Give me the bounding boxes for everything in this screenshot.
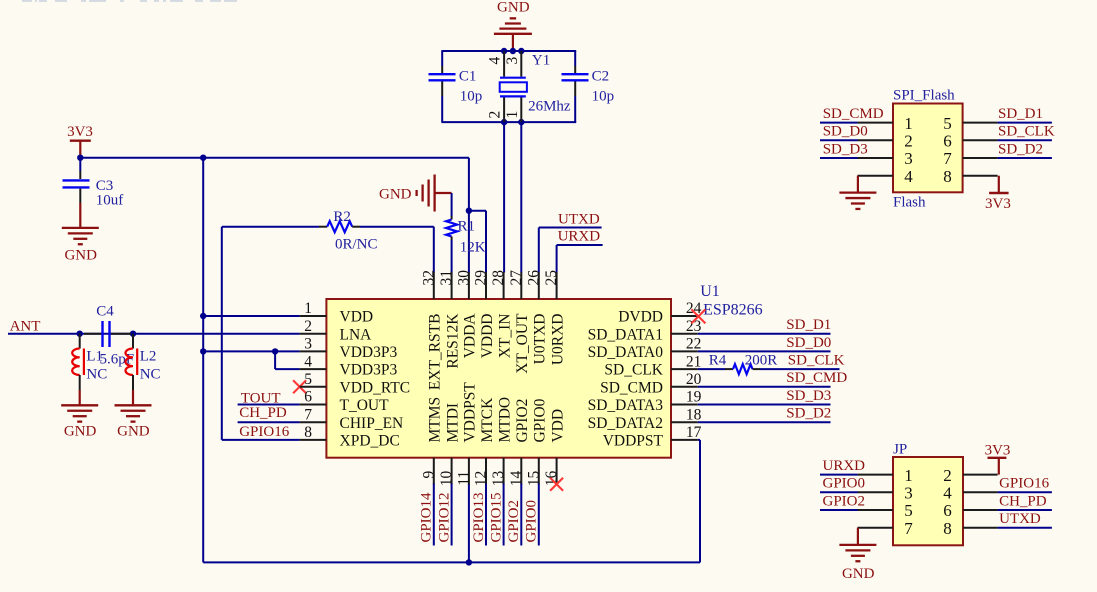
pin name MTDI (U1 pin 10) bbox=[444, 403, 461, 443]
pin 32 stub (U1 top) bbox=[433, 272, 435, 299]
svg-text:LNA: LNA bbox=[340, 326, 373, 343]
pin number 1 (SPI_Flash) bbox=[904, 114, 913, 133]
junction ANT at L2 bbox=[130, 331, 136, 337]
wire SD_D2 (SPI_Flash right) bbox=[998, 157, 1052, 159]
pin 14 stub (U1 bottom) bbox=[520, 458, 522, 485]
pin name U0RXD (U1 pin 25) bbox=[549, 314, 566, 366]
wire GPIO12 bbox=[451, 484, 453, 546]
capacitor C2 bbox=[562, 51, 615, 122]
pin name XPD_DC (U1 pin 8) bbox=[340, 433, 400, 450]
net label ANT bbox=[10, 319, 41, 335]
pin name GPIO2 (U1 pin 14) bbox=[514, 399, 531, 443]
pin 29 stub (U1 top) bbox=[485, 272, 487, 299]
net label CH_PD (JP right) bbox=[999, 493, 1047, 509]
svg-text:19: 19 bbox=[686, 389, 702, 406]
pin 24 stub (U1 right) bbox=[671, 315, 698, 317]
wire U0TXD pin26 to UTXD bbox=[539, 228, 602, 273]
junction 3V3 at C3 bbox=[77, 155, 83, 161]
svg-text:10p: 10p bbox=[460, 89, 483, 105]
ground GND (under L1) bbox=[61, 390, 98, 439]
svg-text:EXT_RSTB: EXT_RSTB bbox=[427, 313, 444, 390]
value ESP8266 bbox=[703, 301, 763, 318]
pin name SD_CLK (U1 pin 21) bbox=[604, 362, 663, 379]
pin name VDDD (U1 pin 29) bbox=[479, 314, 496, 359]
svg-text:VDD_RTC: VDD_RTC bbox=[340, 379, 411, 396]
pin name VDD (U1 pin 16) bbox=[549, 409, 566, 443]
svg-text:GPIO0: GPIO0 bbox=[823, 476, 866, 492]
pin number 16 (U1) bbox=[543, 471, 560, 487]
net label GPIO0 bbox=[524, 500, 540, 543]
pin 15 stub (U1 bottom) bbox=[538, 458, 540, 485]
svg-text:2: 2 bbox=[304, 318, 312, 335]
junction crystal top pin4 bbox=[501, 48, 507, 54]
svg-text:MTCK: MTCK bbox=[479, 397, 496, 443]
svg-text:0R/NC: 0R/NC bbox=[335, 237, 378, 253]
power symbol 3V3 (JP pin2) bbox=[985, 442, 1011, 474]
pin number 19 (U1) bbox=[686, 389, 702, 406]
pin number 6 (SPI_Flash) bbox=[943, 132, 952, 151]
pin 31 stub (U1 top) bbox=[451, 272, 453, 299]
net label GPIO13 bbox=[471, 492, 487, 542]
pin 21 stub (U1 right) bbox=[671, 368, 698, 370]
net label GPIO16 (JP right) bbox=[999, 476, 1050, 492]
svg-text:5: 5 bbox=[943, 114, 952, 133]
pin 1 stub (SPI_Flash) bbox=[858, 122, 894, 124]
ground GND (JP pin7) bbox=[839, 528, 876, 582]
pin 4 stub (U1 left) bbox=[300, 368, 327, 370]
ground GND (SPI_Flash pin4) bbox=[839, 176, 876, 209]
pin number 2 (Y1) bbox=[487, 111, 504, 119]
svg-text:12K: 12K bbox=[460, 240, 486, 256]
svg-text:CHIP_EN: CHIP_EN bbox=[340, 415, 404, 432]
svg-text:SD_D2: SD_D2 bbox=[786, 406, 831, 422]
svg-text:XT_OUT: XT_OUT bbox=[514, 313, 531, 374]
pin number 2 (JP) bbox=[943, 466, 952, 485]
pin number 24 (U1) bbox=[686, 300, 702, 317]
clipped sheet title text remnant bbox=[22, 0, 237, 2]
ground GND (rotated, at R1) bbox=[379, 175, 452, 212]
svg-text:GPIO15: GPIO15 bbox=[488, 492, 504, 542]
svg-text:GND: GND bbox=[64, 423, 97, 439]
junction crystal top pin3 bbox=[518, 48, 524, 54]
wire SD_CMD bbox=[698, 386, 831, 388]
pin 7 stub (U1 left) bbox=[300, 421, 327, 423]
pin number 25 (U1) bbox=[543, 270, 560, 286]
svg-text:RES12K: RES12K bbox=[444, 313, 461, 369]
svg-text:VDDA: VDDA bbox=[462, 313, 479, 359]
svg-text:9: 9 bbox=[420, 471, 437, 479]
pin 28 stub (U1 top) bbox=[503, 272, 505, 299]
pin 1 stub (U1 left) bbox=[300, 315, 327, 317]
svg-text:SD_D3: SD_D3 bbox=[786, 388, 831, 404]
svg-text:MTMS: MTMS bbox=[427, 397, 444, 443]
net label URXD bbox=[558, 229, 601, 245]
pin name XT_OUT (U1 pin 27) bbox=[514, 313, 531, 374]
pin number 4 (SPI_Flash) bbox=[904, 167, 913, 186]
net label GPIO0 (JP left) bbox=[823, 476, 866, 492]
pin number 2 (SPI_Flash) bbox=[904, 132, 913, 151]
wire SD_D1 bbox=[698, 333, 831, 335]
net label SD_D0 (SPI_Flash left) bbox=[823, 124, 868, 140]
svg-text:SD_CMD: SD_CMD bbox=[786, 370, 847, 386]
pin 10 stub (U1 bottom) bbox=[451, 458, 453, 485]
svg-text:31: 31 bbox=[438, 270, 455, 286]
svg-text:8: 8 bbox=[943, 167, 952, 186]
net label SD_CMD (SPI_Flash left) bbox=[823, 106, 884, 122]
wire SD_D3 bbox=[698, 404, 831, 406]
pin 6 stub (U1 left) bbox=[300, 404, 327, 406]
pin 7 stub (JP) bbox=[858, 527, 894, 529]
junction crystal bottom pin1 bbox=[518, 119, 524, 125]
svg-text:VDD: VDD bbox=[340, 309, 374, 326]
junction 3V3 rail at left vertical bbox=[200, 155, 206, 161]
wire 3V3 branch to VDDD pin29 bbox=[469, 211, 486, 273]
svg-text:1: 1 bbox=[504, 111, 521, 119]
svg-text:SD_DATA2: SD_DATA2 bbox=[588, 415, 663, 432]
svg-text:U0RXD: U0RXD bbox=[549, 314, 566, 366]
svg-text:21: 21 bbox=[686, 353, 702, 370]
pin number 7 (SPI_Flash) bbox=[943, 149, 952, 168]
svg-text:29: 29 bbox=[473, 270, 490, 286]
pin number 31 (U1) bbox=[438, 270, 455, 286]
pin 27 stub (U1 top) bbox=[520, 272, 522, 299]
svg-text:VDD: VDD bbox=[549, 409, 566, 443]
pin 16 stub (U1 bottom) bbox=[556, 458, 558, 485]
svg-text:4: 4 bbox=[943, 484, 952, 503]
svg-text:8: 8 bbox=[943, 519, 952, 538]
pin number 3 (U1) bbox=[304, 336, 312, 353]
svg-text:26Mhz: 26Mhz bbox=[528, 99, 571, 115]
wire SD_CLK (SPI_Flash right) bbox=[998, 139, 1052, 141]
pin 26 stub (U1 top) bbox=[538, 272, 540, 299]
svg-text:GPIO2: GPIO2 bbox=[514, 399, 531, 443]
pin number 3 (Y1) bbox=[504, 57, 521, 65]
svg-text:6: 6 bbox=[943, 501, 952, 520]
wire GPIO15 bbox=[503, 484, 505, 546]
pin 5 stub (JP) bbox=[858, 509, 894, 511]
pin number 18 (U1) bbox=[686, 406, 702, 423]
svg-text:CH_PD: CH_PD bbox=[999, 493, 1047, 509]
pin name VDDPST (U1 pin 17) bbox=[603, 433, 664, 450]
svg-text:25: 25 bbox=[543, 270, 560, 286]
power symbol GND (crystal top) bbox=[494, 0, 532, 51]
no-connect X on VDD_RTC pin5 bbox=[293, 380, 306, 393]
svg-text:10uf: 10uf bbox=[96, 193, 124, 209]
svg-text:32: 32 bbox=[420, 270, 437, 286]
svg-text:VDDD: VDDD bbox=[479, 314, 496, 359]
pin number 12 (U1) bbox=[473, 471, 490, 487]
svg-text:3V3: 3V3 bbox=[985, 442, 1011, 458]
crystal Y1 bbox=[500, 51, 571, 122]
pin 3 stub (SPI_Flash) bbox=[858, 157, 894, 159]
wire TOUT to T_OUT pin6 bbox=[238, 404, 300, 406]
svg-text:11: 11 bbox=[455, 471, 472, 486]
pin number 5 (JP) bbox=[904, 501, 913, 520]
svg-text:3: 3 bbox=[504, 57, 521, 65]
net label SD_D2 (SPI_Flash right) bbox=[998, 141, 1043, 157]
pin 8 stub (U1 left) bbox=[300, 439, 327, 441]
junction 3V3 VDDA/VDDD branch bbox=[466, 208, 472, 214]
wire VDDPST pin17 down bbox=[698, 440, 700, 563]
svg-text:C4: C4 bbox=[96, 304, 114, 320]
wire SD_D1 (SPI_Flash right) bbox=[998, 122, 1052, 124]
pin number 26 (U1) bbox=[525, 270, 542, 286]
svg-text:27: 27 bbox=[508, 270, 525, 286]
svg-text:GPIO14: GPIO14 bbox=[419, 492, 435, 543]
pin name XT_IN (U1 pin 28) bbox=[496, 314, 513, 359]
resistor R2 bbox=[222, 209, 434, 253]
pin number 7 (U1) bbox=[304, 406, 312, 423]
junction bottom rail at pin11 bbox=[466, 559, 472, 565]
svg-text:4: 4 bbox=[304, 353, 312, 370]
pin number 8 (SPI_Flash) bbox=[943, 167, 952, 186]
svg-text:Y1: Y1 bbox=[532, 52, 550, 68]
pin name T_OUT (U1 pin 6) bbox=[340, 397, 390, 414]
pin 2 stub (JP) bbox=[963, 474, 998, 476]
inductor L1 bbox=[72, 334, 107, 390]
wire SD_D3 (SPI_Flash left) bbox=[820, 157, 858, 159]
pin name VDD (U1 pin 1) bbox=[340, 309, 374, 326]
svg-text:GPIO2: GPIO2 bbox=[506, 500, 522, 543]
net label GPIO16 (left) bbox=[239, 424, 290, 440]
svg-text:2: 2 bbox=[904, 132, 913, 151]
junction ANT at L1 bbox=[77, 331, 83, 337]
svg-text:4: 4 bbox=[904, 167, 913, 186]
svg-text:L1: L1 bbox=[86, 349, 103, 365]
svg-text:SD_D3: SD_D3 bbox=[823, 141, 868, 157]
pin number 15 (U1) bbox=[525, 471, 542, 487]
pin 19 stub (U1 right) bbox=[671, 404, 698, 406]
svg-text:XT_IN: XT_IN bbox=[496, 314, 513, 359]
power symbol 3V3 (left) bbox=[67, 124, 93, 158]
svg-text:XPD_DC: XPD_DC bbox=[340, 433, 400, 450]
pin number 4 (U1) bbox=[304, 353, 312, 370]
svg-text:SD_D2: SD_D2 bbox=[998, 141, 1043, 157]
svg-text:SD_DATA0: SD_DATA0 bbox=[588, 344, 664, 361]
pin number 4 (JP) bbox=[943, 484, 952, 503]
wire SD_CMD (SPI_Flash left) bbox=[820, 122, 858, 124]
wire UTXD (JP right) bbox=[998, 527, 1052, 529]
pin number 28 (U1) bbox=[490, 270, 507, 286]
wire VDDPST pin11 drop bbox=[468, 484, 470, 563]
svg-text:VDDPST: VDDPST bbox=[462, 382, 479, 443]
pin 6 stub (SPI_Flash) bbox=[963, 139, 998, 141]
pin number 14 (U1) bbox=[508, 471, 525, 487]
svg-text:SD_D0: SD_D0 bbox=[823, 124, 868, 140]
pin name SD_CMD (U1 pin 20) bbox=[600, 379, 663, 396]
pin name GPIO0 (U1 pin 15) bbox=[532, 398, 549, 442]
svg-text:4: 4 bbox=[487, 57, 504, 65]
pin name MTDO (U1 pin 13) bbox=[496, 397, 513, 443]
wire XT_IN vertical (crystal pin2 to U1 pin28) bbox=[503, 122, 505, 272]
svg-text:T_OUT: T_OUT bbox=[340, 397, 390, 414]
pin number 21 (U1) bbox=[686, 353, 702, 370]
svg-text:1: 1 bbox=[904, 114, 913, 133]
svg-text:7: 7 bbox=[304, 406, 312, 423]
svg-text:6: 6 bbox=[304, 389, 312, 406]
connector SPI_Flash body bbox=[893, 104, 963, 193]
wire XT_OUT vertical (crystal pin1 to U1 pin27) bbox=[520, 122, 522, 272]
svg-text:GND: GND bbox=[379, 186, 412, 202]
capacitor C3 bbox=[63, 158, 124, 209]
net label GPIO12 bbox=[436, 492, 452, 542]
wire U0RXD pin25 to URXD bbox=[557, 245, 603, 273]
svg-text:3: 3 bbox=[904, 484, 913, 503]
pin number 5 (SPI_Flash) bbox=[943, 114, 952, 133]
pin number 27 (U1) bbox=[508, 270, 525, 286]
designator JP bbox=[893, 441, 907, 457]
junction crystal top gnd bbox=[510, 48, 516, 54]
svg-text:SD_CLK: SD_CLK bbox=[998, 124, 1055, 140]
wire VDDPST bottom rail bbox=[203, 561, 700, 563]
pin number 10 (U1) bbox=[438, 471, 455, 487]
net label SD_D1 bbox=[786, 317, 831, 333]
svg-text:30: 30 bbox=[455, 270, 472, 286]
wire GPIO2 (JP left) bbox=[820, 509, 858, 511]
svg-text:3: 3 bbox=[904, 149, 913, 168]
svg-text:GPIO16: GPIO16 bbox=[999, 476, 1050, 492]
svg-text:2: 2 bbox=[487, 111, 504, 119]
pin 23 stub (U1 right) bbox=[671, 333, 698, 335]
net label SD_CLK (SPI_Flash right) bbox=[998, 124, 1055, 140]
svg-text:28: 28 bbox=[490, 270, 507, 286]
power symbol 3V3 (SPI_Flash pin8) bbox=[985, 176, 1011, 212]
pin name EXT_RSTB (U1 pin 32) bbox=[427, 313, 444, 390]
inductor L2 bbox=[125, 334, 160, 390]
pin 2 stub (SPI_Flash) bbox=[858, 139, 894, 141]
pin number 1 (U1) bbox=[304, 300, 312, 317]
svg-text:SD_D1: SD_D1 bbox=[786, 317, 831, 333]
net label GPIO2 bbox=[506, 500, 522, 543]
pin number 17 (U1) bbox=[686, 424, 702, 441]
svg-text:JP: JP bbox=[893, 441, 907, 457]
net label UTXD bbox=[558, 211, 600, 227]
wire 3V3 left vertical rail bbox=[202, 158, 204, 563]
wire crystal bottom rail bbox=[441, 121, 576, 123]
pin number 7 (JP) bbox=[904, 519, 913, 538]
wire GPIO13 bbox=[485, 484, 487, 546]
pin number 1 (JP) bbox=[904, 466, 913, 485]
pin name VDD_RTC (U1 pin 5) bbox=[340, 379, 411, 396]
connector JP body bbox=[893, 457, 963, 545]
pin number 32 (U1) bbox=[420, 270, 437, 286]
pin 18 stub (U1 right) bbox=[671, 421, 698, 423]
svg-text:GPIO2: GPIO2 bbox=[823, 493, 866, 509]
svg-text:ESP8266: ESP8266 bbox=[703, 301, 763, 318]
svg-text:GND: GND bbox=[497, 0, 530, 15]
svg-text:U1: U1 bbox=[700, 283, 720, 300]
svg-text:UTXD: UTXD bbox=[558, 211, 600, 227]
pin 8 stub (SPI_Flash) bbox=[963, 175, 998, 177]
pin number 6 (U1) bbox=[304, 389, 312, 406]
svg-text:C1: C1 bbox=[459, 68, 477, 84]
svg-text:NC: NC bbox=[86, 366, 107, 382]
pin number 22 (U1) bbox=[686, 336, 702, 353]
pin number 30 (U1) bbox=[455, 270, 472, 286]
pin 12 stub (U1 bottom) bbox=[485, 458, 487, 485]
wire SD_D0 (SPI_Flash left) bbox=[820, 139, 858, 141]
pin number 20 (U1) bbox=[686, 371, 702, 388]
svg-text:DVDD: DVDD bbox=[618, 309, 663, 326]
svg-text:SD_DATA1: SD_DATA1 bbox=[588, 326, 663, 343]
net label URXD (JP left) bbox=[823, 458, 866, 474]
wire 3V3 vertical to VDDA pin30 bbox=[468, 158, 470, 273]
pin name CHIP_EN (U1 pin 7) bbox=[340, 415, 404, 432]
pin name SD_DATA0 (U1 pin 22) bbox=[588, 344, 664, 361]
net label TOUT bbox=[241, 390, 281, 406]
svg-text:VDD3P3: VDD3P3 bbox=[340, 362, 398, 379]
designator SPI_Flash bbox=[893, 88, 955, 104]
svg-text:5: 5 bbox=[904, 501, 913, 520]
net label SD_D3 bbox=[786, 388, 831, 404]
wire to VDD pin1 bbox=[203, 315, 299, 317]
pin 30 stub (U1 top) bbox=[468, 272, 470, 299]
svg-text:2: 2 bbox=[943, 466, 952, 485]
op-amp U1 body (ESP8266 IC) bbox=[326, 299, 671, 458]
wire crystal top rail bbox=[441, 50, 576, 52]
svg-text:MTDO: MTDO bbox=[496, 397, 513, 443]
svg-text:SD_CLK: SD_CLK bbox=[788, 353, 845, 369]
pin number 1 (Y1) bbox=[504, 111, 521, 119]
pin number 9 (U1) bbox=[420, 471, 437, 479]
net label GPIO14 bbox=[419, 492, 435, 543]
pin name SD_DATA1 (U1 pin 23) bbox=[588, 326, 663, 343]
svg-text:SPI_Flash: SPI_Flash bbox=[893, 88, 955, 104]
svg-text:GND: GND bbox=[117, 423, 150, 439]
junction VDD pin1 branch bbox=[200, 313, 206, 319]
wire 3V3 horizontal rail bbox=[80, 157, 469, 159]
pin 11 stub (U1 bottom) bbox=[468, 458, 470, 485]
svg-text:26: 26 bbox=[525, 270, 542, 286]
junction crystal bottom pin2 bbox=[501, 119, 507, 125]
pin 3 stub (JP) bbox=[858, 491, 894, 493]
svg-text:GPIO16: GPIO16 bbox=[239, 424, 290, 440]
pin number 3 (JP) bbox=[904, 484, 913, 503]
svg-text:C2: C2 bbox=[592, 68, 610, 84]
pin name LNA (U1 pin 2) bbox=[340, 326, 373, 343]
svg-text:Flash: Flash bbox=[893, 195, 926, 211]
svg-text:3V3: 3V3 bbox=[67, 124, 93, 140]
pin number 23 (U1) bbox=[686, 318, 702, 335]
net label SD_D0 bbox=[786, 335, 831, 351]
net label UTXD (JP right) bbox=[999, 511, 1041, 527]
pin 13 stub (U1 bottom) bbox=[503, 458, 505, 485]
svg-text:3: 3 bbox=[304, 336, 312, 353]
no-connect X on DVDD pin24 bbox=[691, 309, 705, 323]
svg-text:200R: 200R bbox=[745, 353, 778, 369]
pin name SD_DATA2 (U1 pin 18) bbox=[588, 415, 663, 432]
junction VDD3P3 branch bbox=[200, 348, 206, 354]
svg-text:6: 6 bbox=[943, 132, 952, 151]
svg-text:GND: GND bbox=[64, 248, 97, 264]
svg-text:5: 5 bbox=[304, 371, 312, 388]
pin name SD_DATA3 (U1 pin 19) bbox=[588, 397, 664, 414]
pin number 13 (U1) bbox=[490, 471, 507, 487]
svg-text:R4: R4 bbox=[709, 353, 727, 369]
svg-text:10p: 10p bbox=[592, 89, 615, 105]
wire to VDD3P3 pin3 bbox=[203, 350, 299, 352]
svg-text:17: 17 bbox=[686, 424, 702, 441]
svg-text:SD_CMD: SD_CMD bbox=[823, 106, 884, 122]
svg-text:GPIO12: GPIO12 bbox=[436, 492, 452, 542]
designator U1 bbox=[700, 283, 720, 300]
pin 2 stub (U1 left) bbox=[300, 333, 327, 335]
svg-text:3V3: 3V3 bbox=[985, 196, 1011, 212]
pin number 11 (U1) bbox=[455, 471, 472, 486]
svg-text:U0TXD: U0TXD bbox=[532, 314, 549, 365]
svg-text:MTDI: MTDI bbox=[444, 403, 461, 443]
net label SD_CMD bbox=[786, 370, 847, 386]
